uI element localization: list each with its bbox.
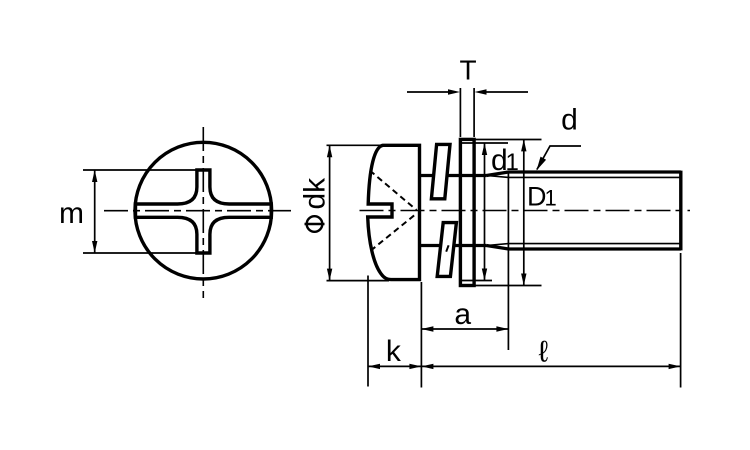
dimension T: label	[459, 54, 476, 85]
dimension k: dimension line with arrows	[368, 364, 421, 369]
svg-text:d: d	[561, 104, 578, 137]
dimension a: label	[454, 298, 471, 331]
dimension T: extension lines	[460, 88, 474, 137]
dimension d: label	[561, 104, 578, 137]
dimension phi-dk: label	[299, 177, 332, 232]
dimension phi-dk: dimension line with arrows	[327, 145, 332, 280]
side view: thread minor diameter lines	[487, 176, 680, 246]
dimension a: dimension line with arrows	[421, 326, 508, 331]
dimension k: label	[386, 335, 402, 368]
dimension d: leader line with arrow	[537, 146, 582, 171]
svg-text:m: m	[59, 197, 84, 230]
svg-text:k: k	[386, 335, 402, 368]
side view: screw shank lines	[421, 176, 487, 246]
svg-text:ℓ: ℓ	[539, 336, 549, 369]
dimension m: dimension line with arrows	[92, 170, 97, 253]
dimension m: extension lines	[83, 170, 197, 253]
dimension d1: extension lines	[459, 140, 542, 286]
dimension m: label	[59, 197, 84, 230]
svg-text:1: 1	[545, 186, 557, 211]
svg-text:1: 1	[506, 149, 519, 176]
dimension l: label	[539, 336, 549, 369]
svg-text:dk: dk	[299, 177, 332, 210]
svg-text:a: a	[454, 298, 471, 331]
dimension phi-dk: extension lines	[327, 145, 390, 280]
side view: screw end face	[679, 171, 682, 251]
front view: vertical centerline	[202, 127, 204, 298]
extension line: head back for k	[367, 276, 369, 387]
side view: flat washer	[460, 139, 474, 285]
side view: horizontal centerline	[360, 210, 691, 212]
side view: hidden recess cone dashed lines	[370, 171, 417, 251]
side view: pan head outline with slot	[368, 145, 420, 279]
side view: spring washer lower section	[437, 223, 456, 277]
front view: screw head circle	[135, 142, 272, 279]
front view: horizontal centerline	[104, 210, 291, 212]
extension line: thread start for a	[507, 171, 509, 350]
extension line: screw end for l	[680, 253, 682, 388]
front view: phillips cross recess with slot	[136, 170, 272, 253]
dimension d1: label	[491, 144, 519, 177]
dimension l: dimension line with arrows	[421, 364, 680, 369]
dimension D1: dimension line with arrows	[521, 139, 526, 285]
side view: thread major diameter lines with run-out	[487, 172, 681, 249]
side view: spring washer upper section	[431, 144, 450, 198]
extension line: bearing face for k, a, l	[420, 282, 422, 388]
svg-text:T: T	[459, 54, 476, 85]
dimension D1: label	[527, 182, 557, 212]
dimension T: arrow lines	[407, 89, 528, 94]
dimension d1: dimension line with arrows	[482, 143, 487, 281]
